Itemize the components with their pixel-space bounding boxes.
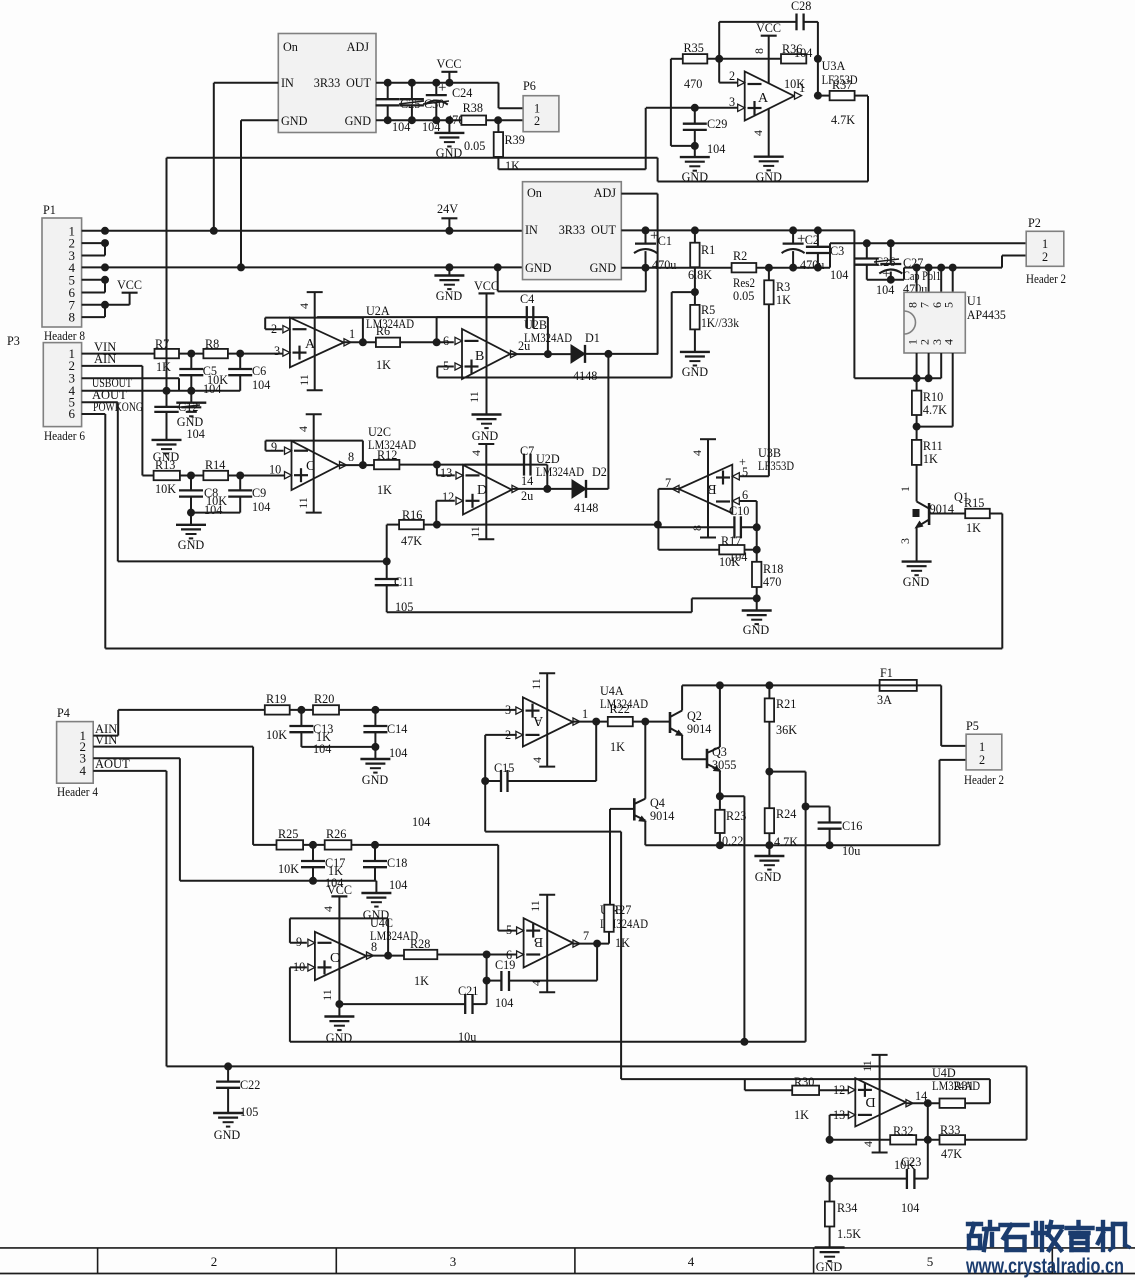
svg-text:AP4435: AP4435 — [967, 308, 1006, 322]
wire U2B output — [510, 353, 571, 355]
svg-text:IN: IN — [281, 76, 294, 90]
svg-text:Q4: Q4 — [650, 796, 665, 810]
junction C30 bottom — [408, 116, 416, 124]
U1 pin7 stub — [928, 268, 930, 293]
svg-text:4: 4 — [296, 426, 310, 432]
wire C13-C14 bottoms — [301, 746, 375, 748]
svg-text:R20: R20 — [314, 692, 334, 706]
junction VCC stub — [445, 79, 453, 87]
svg-text:6: 6 — [742, 488, 748, 502]
svg-text:OUT: OUT — [346, 76, 372, 90]
wire D2 to node — [586, 488, 608, 490]
svg-text:R24: R24 — [776, 807, 796, 821]
header P5 — [966, 734, 1002, 770]
svg-text:11: 11 — [297, 374, 311, 386]
op-amp U4A (flipped) — [523, 697, 573, 746]
svg-text:10K: 10K — [278, 862, 299, 876]
U1 bottom pins to drain rail — [916, 353, 918, 378]
ground under C5 node — [190, 391, 192, 403]
junction C5 top — [187, 350, 195, 358]
svg-text:R39: R39 — [505, 133, 525, 147]
svg-text:R32: R32 — [893, 1124, 913, 1138]
svg-text:R38: R38 — [463, 101, 483, 115]
svg-text:4.7K: 4.7K — [831, 113, 855, 127]
wire pin2 stub — [718, 59, 720, 83]
transistor Q4 9014 — [633, 798, 636, 820]
wire U2D pin12 hook — [436, 500, 455, 502]
svg-text:GND: GND — [436, 289, 463, 303]
svg-text:1: 1 — [582, 707, 588, 721]
junction GND-loop left — [494, 263, 502, 271]
wire GND loop under regulator — [497, 267, 499, 291]
svg-text:U4A: U4A — [600, 684, 624, 698]
wire U2D pin13 jog — [436, 465, 438, 476]
capacitor C4 2u — [526, 316, 528, 318]
svg-text:VCC: VCC — [436, 57, 461, 71]
svg-text:104: 104 — [252, 500, 270, 514]
resistor R17 10K — [719, 545, 744, 554]
capacitor C15 104 — [485, 780, 501, 782]
svg-text:10K: 10K — [155, 482, 176, 496]
svg-text:GND: GND — [525, 261, 552, 275]
svg-text:104: 104 — [901, 1201, 919, 1215]
junction U2C out — [359, 461, 367, 469]
ground under U4C — [338, 1004, 340, 1016]
wire Q4 base to R27 — [609, 809, 611, 905]
junction C26 top — [863, 239, 871, 247]
wire U3B output — [658, 488, 678, 490]
junction GND rail — [237, 263, 245, 271]
wire R33 to AOUT rail — [965, 1139, 1027, 1141]
resistor R34 1.5K — [829, 1179, 831, 1202]
svg-text:R23: R23 — [726, 809, 746, 823]
svg-text:4148: 4148 — [573, 369, 597, 383]
junction node A — [715, 55, 723, 63]
wire R12 to U2D — [399, 464, 437, 466]
svg-text:P1: P1 — [43, 203, 56, 217]
voltage regulator module U6 3R33 (main) — [523, 182, 622, 280]
resistor R13 10K — [154, 471, 180, 480]
svg-text:D: D — [865, 1094, 875, 1109]
resistor R7 1K — [155, 349, 180, 358]
junction C1 top — [642, 226, 650, 234]
svg-text:1.5K: 1.5K — [837, 1227, 861, 1241]
power pins U2C — [313, 414, 315, 512]
op-amp U2C — [292, 441, 340, 490]
svg-text:2u: 2u — [518, 339, 530, 353]
svg-text:R1: R1 — [701, 243, 715, 257]
wire R20 to U4A pin3 — [339, 709, 517, 711]
svg-text:2: 2 — [534, 114, 540, 128]
svg-text:Header 2: Header 2 — [964, 773, 1004, 787]
svg-text:C11: C11 — [394, 575, 414, 589]
junction P1 pin7 — [101, 301, 109, 309]
junction C9 top — [236, 472, 244, 480]
op-amp U4B (flipped) — [524, 918, 573, 967]
svg-text:C16: C16 — [842, 819, 862, 833]
junction R36 right — [814, 55, 822, 63]
svg-text:C22: C22 — [240, 1078, 260, 1092]
wire regulator U5 IN to P1 pin1 — [214, 82, 278, 84]
resistor R32 10K — [890, 1135, 916, 1144]
wire R28 to U4B pin6 — [437, 954, 517, 956]
capacitor C6 104 — [239, 354, 241, 369]
svg-text:104: 104 — [204, 503, 222, 517]
svg-text:P2: P2 — [1028, 216, 1041, 230]
junction AOUT/C11 — [383, 557, 391, 565]
svg-text:IN: IN — [525, 223, 538, 237]
junction R34 top — [826, 1175, 834, 1183]
wire P4 pin2 VIN — [93, 746, 253, 748]
svg-text:104: 104 — [830, 268, 848, 282]
svg-text:Header 2: Header 2 — [1026, 272, 1066, 286]
svg-text:GND: GND — [682, 170, 709, 184]
wire U2C output — [339, 464, 374, 466]
svg-text:2: 2 — [211, 1254, 218, 1269]
svg-text:8: 8 — [348, 450, 354, 464]
svg-text:3R33: 3R33 — [559, 223, 585, 237]
wire C15 loop — [595, 722, 597, 781]
wire U3A pin3 line — [646, 107, 738, 109]
ground under Q1 — [902, 560, 932, 562]
svg-text:1K: 1K — [794, 1108, 809, 1122]
svg-text:GND: GND — [816, 1260, 843, 1274]
resistor R28 1K — [404, 950, 437, 959]
svg-text:ADJ: ADJ — [347, 40, 370, 54]
svg-text:5: 5 — [927, 1254, 934, 1269]
svg-text:U3A: U3A — [822, 59, 846, 73]
wire U4D output — [906, 1102, 940, 1104]
svg-text:R25: R25 — [278, 827, 298, 841]
ground under R18 — [756, 598, 758, 610]
junction Q3-emitter rail — [740, 1038, 748, 1046]
svg-text:F1: F1 — [880, 666, 893, 680]
svg-text:C: C — [330, 951, 339, 966]
svg-text:104: 104 — [252, 378, 270, 392]
svg-text:104: 104 — [412, 815, 430, 829]
junction C18 top — [371, 841, 379, 849]
svg-text:OUT: OUT — [591, 223, 617, 237]
svg-text:LM324AD: LM324AD — [536, 465, 584, 479]
wire C23 line — [830, 1178, 907, 1180]
svg-text:R28: R28 — [410, 937, 430, 951]
wire R6 to U2B pin6 — [400, 341, 454, 343]
resistor R37 4.7K — [818, 95, 830, 97]
junction U4A out — [592, 718, 600, 726]
svg-text:GND: GND — [755, 870, 782, 884]
svg-text:R3: R3 — [776, 280, 790, 294]
junction R1 top — [691, 226, 699, 234]
junction GND symbol stub — [445, 116, 453, 124]
P1 pin stubs — [82, 230, 105, 232]
wire C26/C27 bottoms to U1 pins — [867, 279, 904, 281]
resistor R25 10K — [277, 840, 304, 849]
capacitor C1 470u polarized — [645, 230, 647, 243]
svg-text:3: 3 — [898, 538, 912, 544]
junction C17 top — [309, 841, 317, 849]
svg-text:A: A — [532, 713, 543, 728]
svg-text:Header 6: Header 6 — [44, 429, 85, 443]
svg-text:470u: 470u — [652, 258, 676, 272]
svg-text:1K: 1K — [776, 293, 791, 307]
junction IN/24V — [210, 227, 218, 235]
svg-text:11: 11 — [320, 989, 334, 1001]
capacitor C8 104 — [190, 476, 192, 491]
wire U4C gnd to C21 — [339, 1003, 465, 1005]
svg-text:C23: C23 — [901, 1155, 921, 1169]
svg-text:VCC: VCC — [474, 279, 499, 293]
svg-text:4: 4 — [861, 1141, 875, 1147]
svg-text:R8: R8 — [205, 337, 219, 351]
svg-text:GND: GND — [743, 623, 770, 637]
svg-text:9014: 9014 — [650, 809, 674, 823]
svg-text:Header 8: Header 8 — [44, 329, 85, 343]
svg-text:6: 6 — [69, 406, 76, 421]
svg-text:3055: 3055 — [712, 758, 736, 772]
svg-text:1: 1 — [799, 81, 805, 95]
capacitor C3 104 — [817, 230, 819, 246]
svg-text:C6: C6 — [252, 364, 266, 378]
op-amp U4C — [315, 932, 367, 980]
wire ADJ to diode node — [621, 193, 657, 195]
wire C4 to output — [533, 316, 548, 318]
svg-text:R30: R30 — [794, 1075, 814, 1089]
wire net USBOUT rail upper (R37 loop) — [167, 157, 658, 159]
svg-text:R13: R13 — [155, 458, 175, 472]
junction C2 top — [789, 226, 797, 234]
wire U2A feedback pin2 — [265, 328, 282, 330]
ground under U2B pin11 — [472, 413, 502, 415]
wire C21 right up — [473, 1003, 487, 1005]
resistor R38 0.05 — [461, 116, 486, 125]
wire rail to P5 pin2 — [939, 760, 941, 845]
svg-text:Cap Pol1: Cap Pol1 — [903, 269, 941, 283]
junction C15 left — [481, 777, 489, 785]
svg-text:3: 3 — [274, 344, 280, 358]
header P1 — [42, 218, 82, 327]
svg-text:R26: R26 — [326, 827, 346, 841]
wire P4 pin3 — [93, 757, 180, 759]
svg-text:10u: 10u — [458, 1030, 476, 1044]
wire R19-R20 — [290, 709, 313, 711]
svg-text:C21: C21 — [458, 984, 478, 998]
ground under R5 — [680, 351, 710, 353]
svg-text:R15: R15 — [964, 496, 984, 510]
svg-text:104: 104 — [707, 142, 725, 156]
junction C22 top — [224, 1062, 232, 1070]
svg-text:104: 104 — [203, 382, 221, 396]
wire C19 to U4B out — [509, 980, 597, 982]
svg-text:11: 11 — [529, 678, 543, 690]
wire R37 to loop — [855, 95, 868, 97]
junction C25 bottom — [384, 116, 392, 124]
svg-text:4148: 4148 — [574, 501, 598, 515]
svg-text:4.7K: 4.7K — [774, 835, 798, 849]
junction C24 top — [432, 79, 440, 87]
svg-text:D1: D1 — [585, 331, 600, 345]
ground U3A pin4 — [768, 109, 770, 157]
junction C29 top — [691, 104, 699, 112]
op-amp U3B (mirrored) — [679, 465, 733, 514]
resistor R1 6.8K — [694, 230, 696, 242]
svg-text:P4: P4 — [57, 706, 70, 720]
svg-text:2u: 2u — [521, 489, 533, 503]
junction U4C gnd — [335, 1000, 343, 1008]
junction C16 node — [802, 803, 810, 811]
resistor R27 1K — [604, 905, 613, 932]
svg-text:1K: 1K — [376, 358, 391, 372]
wire R35 left to C29 bottom — [671, 58, 683, 60]
wire R39 to U3A pin3 — [498, 168, 645, 170]
svg-text:10K: 10K — [719, 555, 740, 569]
svg-text:C7: C7 — [520, 444, 534, 458]
resistor R18 470 — [756, 550, 758, 562]
svg-text:C18: C18 — [387, 856, 407, 870]
capacitor C21 10u — [464, 994, 466, 1014]
header P3 — [43, 343, 81, 427]
junction R22/Q4 — [641, 718, 649, 726]
svg-text:36K: 36K — [776, 723, 797, 737]
wire Q2 collector rail — [682, 684, 880, 686]
wire R3 to U3B pin5 — [768, 304, 770, 476]
resistor R6 1K — [376, 338, 400, 347]
svg-text:R35: R35 — [684, 41, 704, 55]
svg-text:1: 1 — [979, 740, 985, 754]
svg-text:11: 11 — [528, 900, 542, 912]
svg-text:9014: 9014 — [687, 722, 711, 736]
svg-text:LF353D: LF353D — [758, 459, 794, 473]
svg-text:C15: C15 — [494, 761, 514, 775]
resistor R35 470 — [683, 54, 708, 63]
wire U4A pin2 hook — [485, 734, 517, 736]
svg-text:U2A: U2A — [366, 304, 390, 318]
wire U2D C7 feedback — [437, 464, 524, 466]
capacitor C25 — [387, 83, 389, 100]
op-amp U4D (flipped) — [855, 1078, 906, 1126]
junction R10/R11/pin4 — [913, 423, 921, 431]
wire P4 pin1 AIN — [93, 735, 118, 737]
svg-text:B: B — [534, 934, 543, 949]
capacitor C27 Cap Pol1 470u — [890, 243, 892, 264]
svg-text:On: On — [283, 40, 298, 54]
junction drain pin2 — [925, 374, 933, 382]
svg-text:R31: R31 — [954, 1079, 974, 1093]
wire U2B C4 feedback — [436, 317, 438, 342]
capacitor C28 — [795, 14, 797, 31]
junction C5 bottom — [187, 387, 195, 395]
ground under C14 — [374, 747, 376, 759]
fuse F1 3A — [880, 684, 917, 686]
svg-text:6: 6 — [506, 948, 512, 962]
junction R2/R3 — [765, 264, 773, 272]
resistor R3 1K — [768, 268, 770, 281]
junction U4B pin6 node — [483, 951, 491, 959]
wire node A — [707, 58, 781, 60]
wire P3 pin6 POWKONG — [82, 413, 106, 415]
svg-text:GND: GND — [345, 114, 372, 128]
svg-text:R12: R12 — [377, 448, 397, 462]
svg-text:U3B: U3B — [758, 446, 781, 460]
junction C27 top — [887, 239, 895, 247]
wire feedback top — [718, 22, 720, 59]
U1 pin8 stub — [916, 268, 918, 293]
junction U3A output — [814, 92, 822, 100]
resistor R31 — [940, 1099, 966, 1108]
junction U2D pin13 node — [433, 461, 441, 469]
svg-text:VCC: VCC — [327, 883, 352, 897]
svg-text:1K: 1K — [923, 452, 938, 466]
svg-text:GND: GND — [472, 429, 499, 443]
junction P1 pin4 — [101, 263, 109, 271]
svg-text:8: 8 — [69, 310, 76, 325]
svg-text:C24: C24 — [452, 86, 472, 100]
ground under C8 — [190, 513, 192, 525]
svg-text:VCC: VCC — [756, 21, 781, 35]
svg-text:9: 9 — [271, 440, 277, 454]
svg-text:R2: R2 — [733, 249, 747, 263]
transistor Q3 3055 — [706, 749, 709, 768]
resistor R36 10K — [781, 54, 806, 63]
svg-text:C3: C3 — [830, 244, 844, 258]
svg-text:GND: GND — [214, 1128, 241, 1142]
svg-text:1: 1 — [349, 327, 355, 341]
wire node X to U2B feedback — [672, 291, 695, 293]
svg-text:3: 3 — [505, 703, 511, 717]
svg-text:24V: 24V — [437, 202, 458, 216]
svg-text:3R33: 3R33 — [314, 76, 340, 90]
junction U2B out — [544, 350, 552, 358]
junction U3B out node — [654, 521, 662, 529]
junction C29 bottom — [691, 142, 699, 150]
svg-text:4: 4 — [690, 450, 704, 456]
wire R26 to U4B pin5 — [351, 844, 498, 846]
capacitor C11 105 — [386, 561, 388, 579]
junction drain pin1 — [913, 374, 921, 382]
junction U2B pin6 node — [433, 338, 441, 346]
svg-text:104: 104 — [495, 996, 513, 1010]
junction C10 right — [753, 523, 761, 531]
resistor R12 1K — [374, 460, 399, 469]
svg-text:C29: C29 — [707, 117, 727, 131]
wire C19 branch — [487, 980, 502, 982]
capacitor C22 105 — [227, 1066, 229, 1081]
svg-text:C1: C1 — [658, 234, 672, 248]
resistor R11 1K — [916, 427, 918, 440]
svg-text:1K: 1K — [505, 159, 520, 173]
svg-text:11: 11 — [468, 526, 482, 538]
resistor R16 47K — [399, 520, 424, 529]
wire R25-R26 — [303, 844, 325, 846]
svg-text:ADJ: ADJ — [594, 186, 617, 200]
wire U3B pin5 — [739, 475, 769, 477]
junction R24 bottom — [765, 841, 773, 849]
svg-text:C2: C2 — [805, 233, 819, 247]
power pins U4B — [546, 895, 548, 992]
svg-text:0.05: 0.05 — [464, 139, 485, 153]
wire C11 bottom rail — [387, 611, 692, 613]
svg-text:4: 4 — [942, 339, 956, 345]
capacitor C29 104 — [694, 108, 696, 124]
junction C27 bottom — [887, 276, 895, 284]
wire P4 pin4 AOUT — [93, 770, 166, 772]
wire R14 to U2C pin10 — [228, 475, 285, 477]
wire R7-R8 — [179, 353, 203, 355]
junction R17 right — [753, 546, 761, 554]
capacitor C7 2u — [523, 464, 525, 466]
resistor R39 1K — [497, 120, 499, 132]
resistor R10 4.7K — [916, 378, 918, 390]
svg-text:11: 11 — [296, 497, 310, 509]
